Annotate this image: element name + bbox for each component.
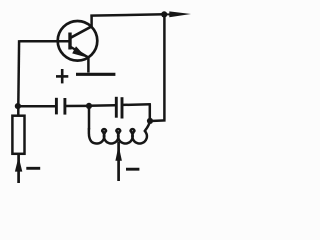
wire tank right vertical [149, 104, 152, 121]
node output junction [161, 11, 167, 17]
node tank right junction [147, 118, 153, 124]
supply arrow minus left [15, 157, 22, 172]
capacitor C1 [56, 98, 65, 115]
label plus [56, 69, 68, 83]
wire tank top right segment [123, 103, 151, 106]
output arrow [164, 11, 191, 17]
emitter common bar [76, 73, 115, 76]
wire below resistor [17, 154, 20, 183]
supply arrow minus tap [115, 146, 122, 161]
resistor R1 [12, 116, 24, 154]
label minus left [26, 167, 40, 170]
wire between node and C2 [89, 104, 115, 107]
wire base lead [20, 40, 70, 43]
wire coil tap lead [117, 142, 120, 182]
wire tank left vertical [88, 106, 91, 130]
label minus tap [126, 168, 139, 171]
capacitor C2 [116, 97, 122, 119]
transistor VT1 [58, 21, 98, 61]
wire node to resistor [17, 106, 20, 116]
node base junction [15, 103, 21, 109]
inductor L1 [89, 122, 150, 144]
wire collector vertical [90, 15, 93, 28]
wire left vertical [17, 40, 20, 106]
node tank left junction [86, 103, 92, 109]
wire C1 to node [66, 105, 89, 108]
wire emitter vertical [87, 57, 90, 73]
wire base node to C1 [18, 105, 56, 108]
wire right vertical [163, 14, 166, 119]
wire elbow to tank [151, 119, 166, 122]
wire top horizontal [90, 14, 165, 15]
